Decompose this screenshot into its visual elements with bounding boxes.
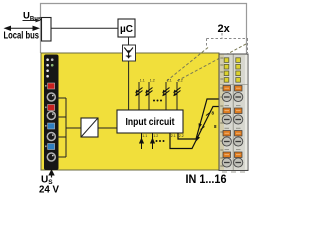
terminal marker blue 1 (48, 123, 55, 129)
dashed leader line 2 (177, 44, 246, 81)
bundle tick 8 lower (201, 127, 205, 130)
isolator / optocoupler (123, 45, 136, 61)
diagnostic LEDs (46, 58, 53, 77)
svg-text:2.1: 2.1 (167, 79, 172, 83)
module housing outline (41, 4, 247, 55)
input bundle A (170, 107, 221, 149)
input bundle B (178, 99, 221, 139)
connector keying column (220, 55, 225, 171)
connector group 4 (222, 150, 243, 167)
svg-text:2.2: 2.2 (179, 134, 184, 138)
terminal point 2 (47, 112, 55, 120)
wire isolator to input circuit (128, 61, 130, 110)
wire local bus to microcontroller (51, 27, 118, 29)
svg-text:1.1: 1.1 (142, 134, 147, 138)
channel labels below (142, 134, 184, 138)
svg-text:24 V: 24 V (39, 185, 59, 196)
svg-text:1.2: 1.2 (150, 79, 155, 83)
svg-text:1.1: 1.1 (140, 79, 145, 83)
input channel lines above (139, 82, 177, 110)
terminal marker red 1 (48, 83, 55, 89)
input stub 2 with arrow (150, 133, 155, 149)
svg-text:2.1: 2.1 (171, 134, 176, 138)
svg-text:2.2: 2.2 (178, 79, 183, 83)
svg-text:Input circuit: Input circuit (126, 116, 175, 128)
ellipsis upper (153, 100, 162, 102)
channel labels above (140, 79, 183, 83)
DC/DC converter (81, 118, 98, 137)
local bus connector box (42, 18, 52, 42)
connector group 3 (222, 128, 243, 146)
connector block 2x (219, 54, 248, 171)
dashed leader line 1 (166, 48, 208, 82)
connector centre divider (232, 55, 234, 171)
svg-text:1.2: 1.2 (153, 134, 158, 138)
terminal point 1 (47, 93, 55, 101)
ellipsis lower (156, 140, 165, 142)
svg-text:µC: µC (120, 24, 133, 35)
connector group 2 (222, 106, 243, 124)
channel LED symbols (135, 88, 180, 97)
microcontroller µC (118, 19, 135, 37)
svg-text:IN 1...16: IN 1...16 (186, 174, 227, 186)
svg-text:2x: 2x (218, 23, 231, 35)
supply wiring bus (57, 98, 82, 157)
U_Bus underline (23, 20, 38, 22)
terminal point 3 (47, 133, 55, 141)
bundle tick 8 upper (206, 113, 210, 116)
input stub 1 with arrow (139, 133, 144, 149)
connector status LEDs (224, 58, 240, 82)
svg-text:Local bus: Local bus (4, 31, 40, 42)
2x dashed bracket (207, 33, 249, 53)
supply arrow (48, 169, 54, 178)
connector edge highlight (245, 55, 248, 170)
terminal point 4 (47, 153, 55, 161)
local bus arrow (4, 26, 41, 31)
wire µC to isolator (128, 37, 130, 45)
terminal marker blue 2 (48, 144, 55, 150)
strip side marks (45, 85, 47, 147)
terminal strip (black) (44, 55, 59, 171)
module body (yellow) (41, 53, 219, 170)
input circuit block (117, 110, 183, 133)
terminal marker red 2 (48, 105, 55, 111)
connector divider (219, 83, 248, 85)
wire converter to input circuit (98, 127, 117, 129)
connector group 1 (222, 86, 243, 102)
connector feet marks (222, 171, 245, 173)
